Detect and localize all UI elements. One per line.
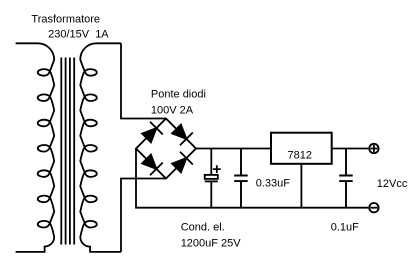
svg-text:1200uF 25V: 1200uF 25V — [181, 237, 242, 249]
svg-text:Trasformatore: Trasformatore — [31, 14, 100, 26]
svg-text:Ponte diodi: Ponte diodi — [151, 89, 206, 101]
svg-text:0.1uF: 0.1uF — [331, 221, 359, 233]
svg-text:100V 2A: 100V 2A — [151, 104, 194, 116]
svg-text:12Vcc: 12Vcc — [377, 178, 408, 190]
svg-text:Cond. el.: Cond. el. — [181, 221, 225, 233]
svg-text:230/15V 1A: 230/15V 1A — [48, 29, 109, 41]
svg-text:7812: 7812 — [288, 150, 312, 162]
svg-text:0.33uF: 0.33uF — [256, 178, 291, 190]
